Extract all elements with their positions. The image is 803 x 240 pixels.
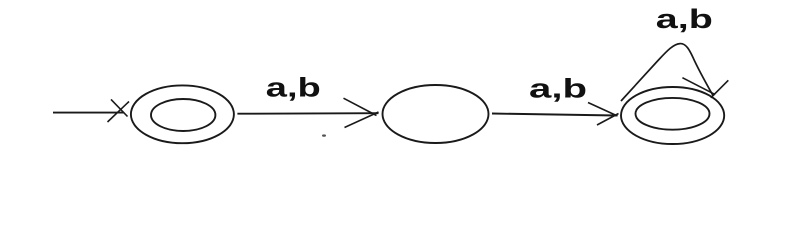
start arrowhead upper stroke bbox=[111, 99, 128, 116]
arrowhead q0-q1 lower stroke bbox=[345, 112, 379, 128]
svg-text:a,b: a,b bbox=[266, 72, 321, 102]
state q2 inner circle bbox=[636, 98, 710, 130]
arrowhead q0-q1 upper stroke bbox=[344, 98, 377, 115]
arrowhead q1-q2 lower stroke bbox=[597, 114, 619, 126]
wire: transition line q1 to q2 bbox=[492, 114, 616, 116]
start arrowhead lower stroke bbox=[108, 102, 130, 123]
wire: start arrow line into state q0 bbox=[53, 112, 124, 114]
arrowhead q1-q2 upper stroke bbox=[588, 103, 618, 117]
self loop arrowhead shallow stroke bbox=[682, 78, 715, 95]
state q2 outer circle (accepting) bbox=[621, 87, 724, 144]
svg-text:a,b: a,b bbox=[656, 4, 713, 34]
wire: self loop on q2 bbox=[621, 44, 713, 101]
state q0 outer circle (accepting) bbox=[131, 85, 234, 143]
state q1 circle bbox=[383, 85, 489, 143]
self loop arrowhead steep stroke bbox=[711, 80, 729, 98]
state q0 inner circle bbox=[151, 99, 215, 131]
wire: transition line q0 to q1 bbox=[237, 112, 378, 115]
stray dot mark bbox=[322, 134, 326, 136]
svg-text:a,b: a,b bbox=[529, 74, 587, 104]
